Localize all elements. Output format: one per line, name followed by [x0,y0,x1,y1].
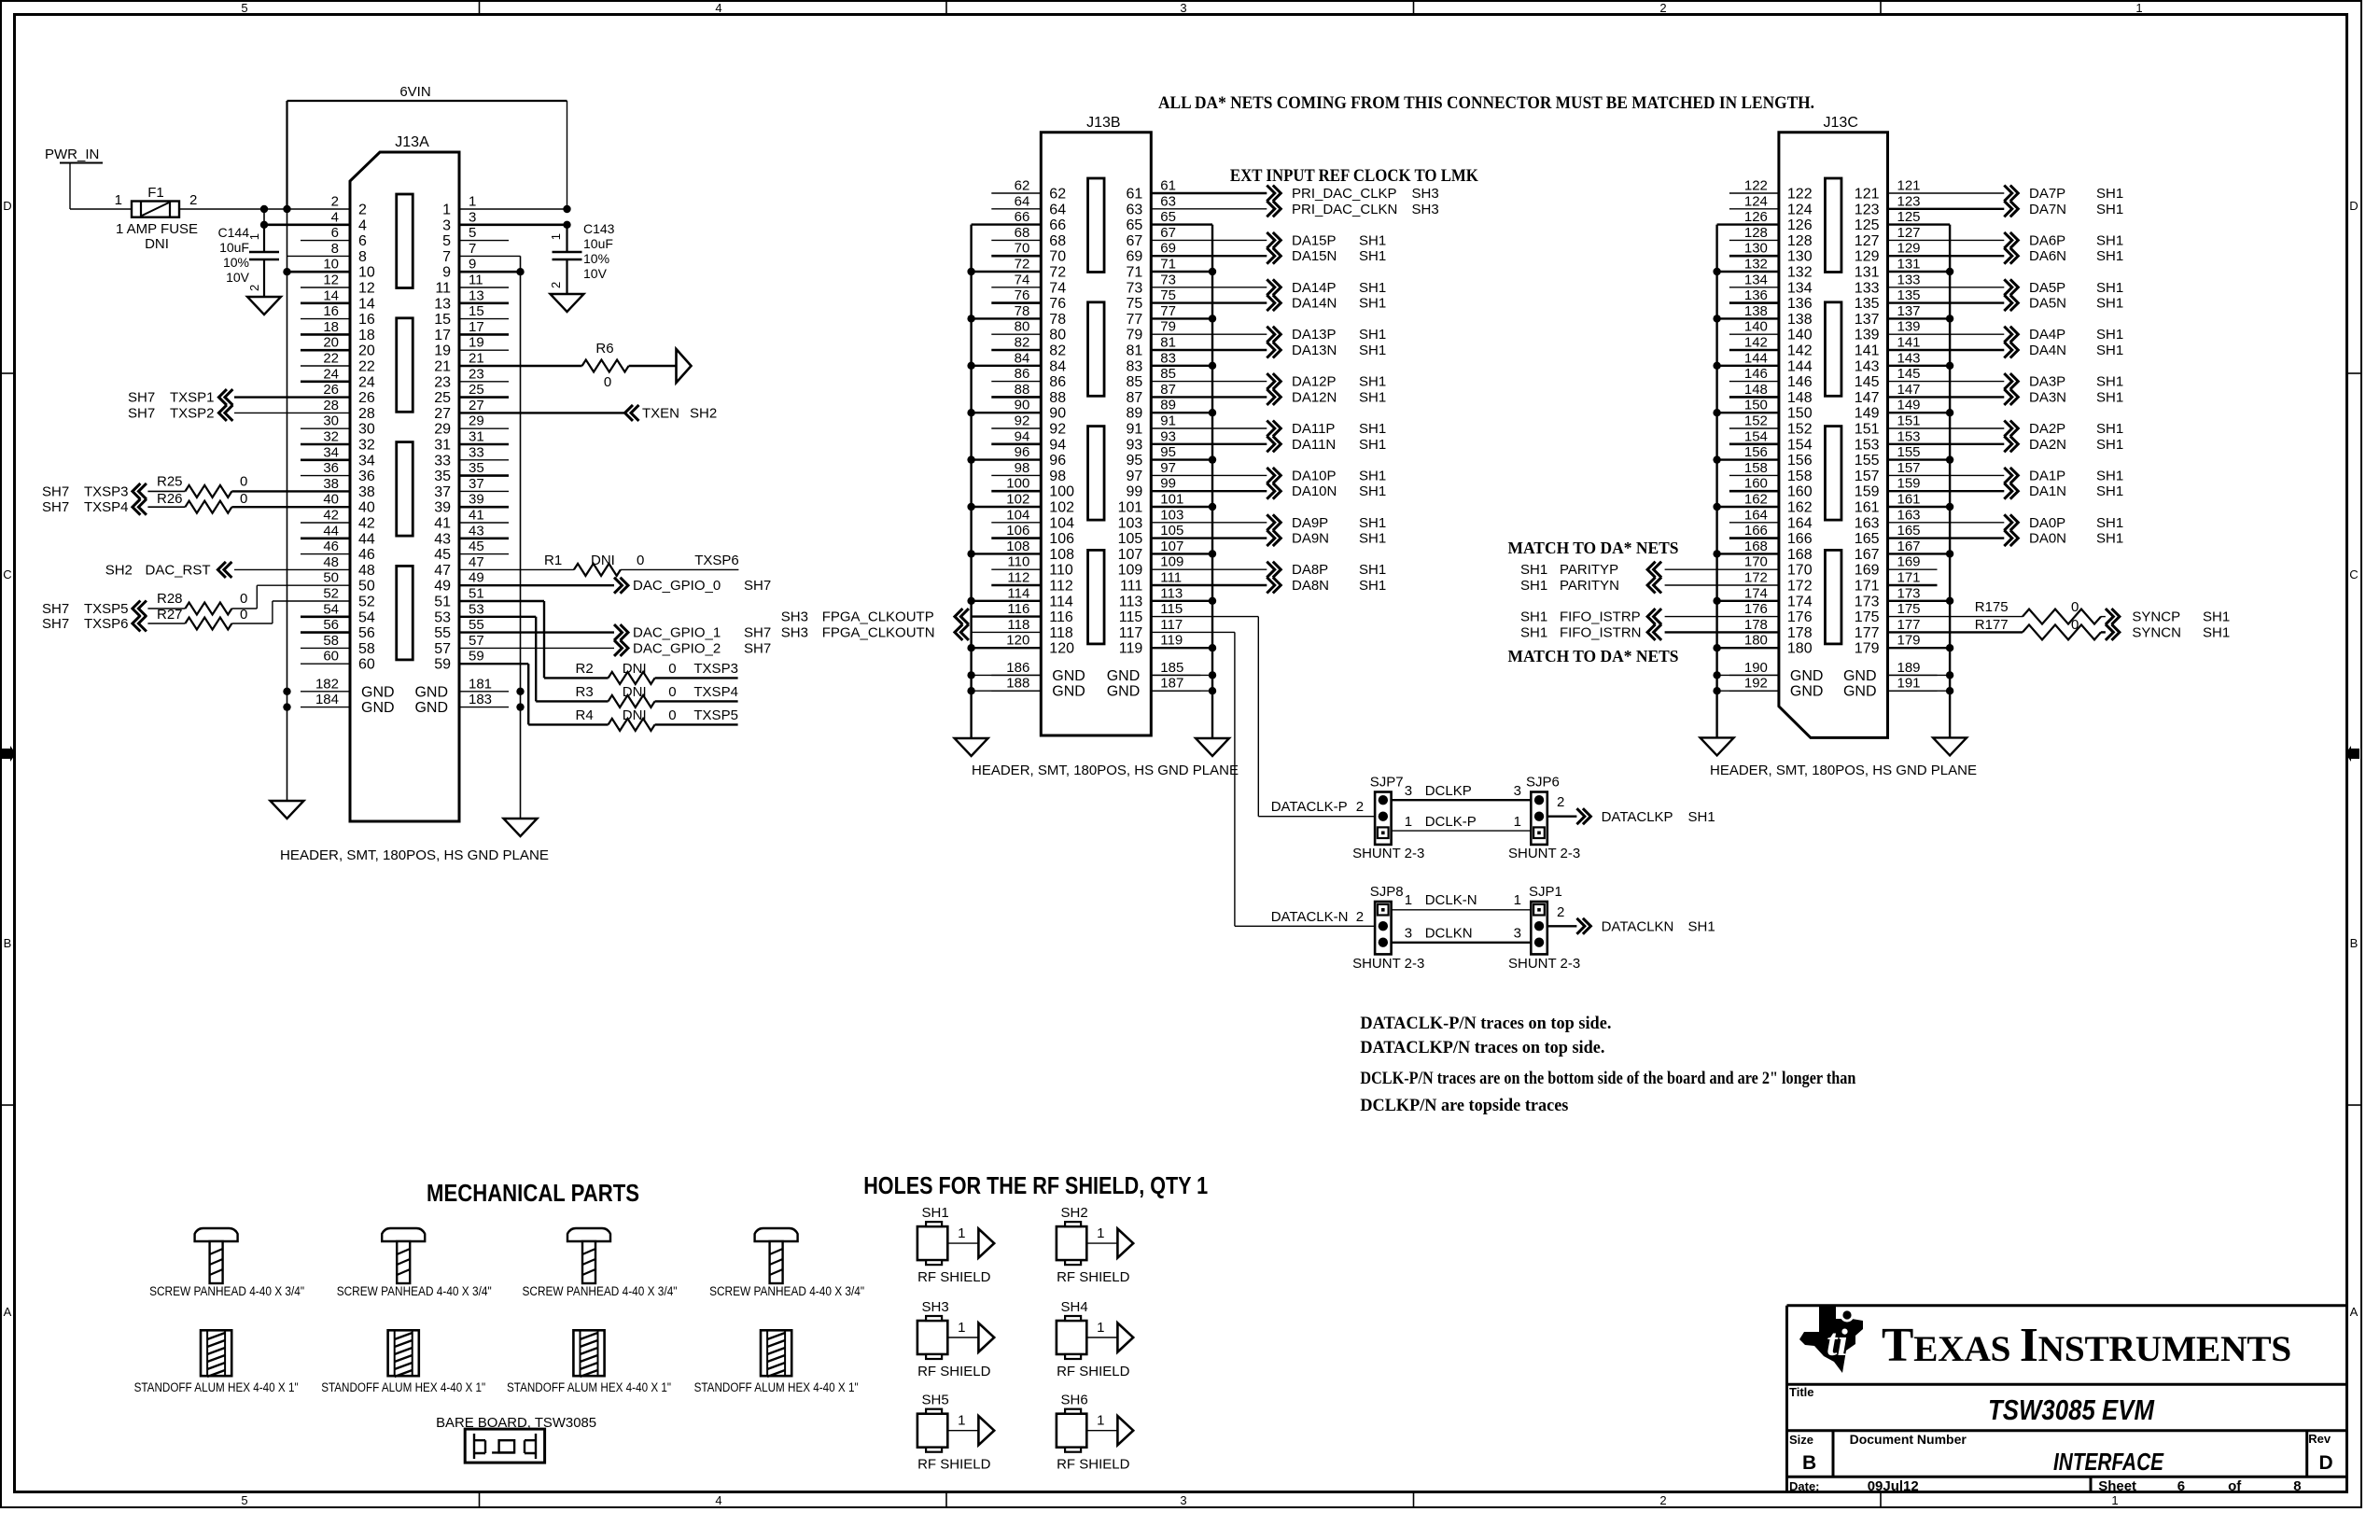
svg-text:TXSP6: TXSP6 [84,616,129,632]
svg-text:84: 84 [1049,358,1066,374]
wire GND pin 96 [972,458,1042,460]
svg-text:DA2P: DA2P [2029,421,2065,437]
svg-text:101: 101 [1160,492,1183,508]
resistor R1 / net TXSP6 [459,568,574,570]
svg-text:TXSP3: TXSP3 [84,483,129,499]
wire left GND bus J13C [1715,225,1717,738]
svg-text:38: 38 [323,476,339,492]
net FPGA_CLKOUTN [955,624,969,640]
svg-text:21: 21 [469,351,484,367]
svg-text:50: 50 [323,570,339,586]
svg-text:SH7: SH7 [744,640,771,656]
svg-text:81: 81 [1127,343,1143,359]
svg-text:GND: GND [1843,668,1877,684]
svg-text:113: 113 [1119,594,1143,609]
svg-text:DA14N: DA14N [1292,296,1337,312]
svg-text:GND: GND [1052,684,1085,700]
svg-text:82: 82 [1049,343,1066,359]
svg-text:39: 39 [434,500,451,516]
svg-text:1: 1 [958,1413,965,1429]
net DA4N [1888,349,2005,351]
net DA10P [1151,474,1267,476]
svg-text:152: 152 [1787,422,1813,438]
svg-text:164: 164 [1744,507,1768,523]
svg-text:DA4P: DA4P [2029,327,2065,343]
svg-text:89: 89 [1160,398,1176,413]
svg-text:115: 115 [1119,609,1143,625]
svg-text:112: 112 [1007,570,1029,586]
svg-text:24: 24 [323,366,339,382]
svg-text:49: 49 [469,570,484,586]
svg-text:17: 17 [469,319,484,335]
resistor R26 [133,499,147,515]
svg-text:61: 61 [1127,187,1143,203]
svg-text:F1: F1 [147,185,164,201]
svg-text:0: 0 [604,374,611,390]
wire GND pin 120 [972,647,1042,649]
svg-text:DAC_GPIO_2: DAC_GPIO_2 [633,640,721,656]
svg-text:GND: GND [1790,684,1824,700]
svg-text:167: 167 [1855,547,1880,563]
node junction C144 top [260,205,268,213]
svg-text:78: 78 [1049,312,1066,328]
svg-text:147: 147 [1855,390,1880,406]
svg-text:1: 1 [115,192,122,208]
svg-text:SH1: SH1 [2096,468,2123,483]
svg-text:10%: 10% [223,255,249,270]
svg-text:103: 103 [1118,515,1143,531]
net DA1N [1888,490,2005,492]
svg-text:148: 148 [1787,390,1813,406]
svg-text:130: 130 [1744,241,1768,257]
screw symbol at 432.2 [382,1228,425,1241]
svg-text:91: 91 [1160,413,1176,429]
svg-text:124: 124 [1744,193,1768,209]
svg-text:170: 170 [1744,554,1768,570]
svg-text:2: 2 [1356,909,1364,925]
svg-text:74: 74 [1049,280,1066,296]
svg-text:TXSP1: TXSP1 [170,390,215,406]
svg-text:31: 31 [434,438,451,454]
svg-text:72: 72 [1015,257,1030,273]
svg-text:60: 60 [358,657,375,673]
node junctions GND 190/192 [1717,674,1779,676]
svg-text:146: 146 [1787,374,1813,390]
resistor R6 [459,365,582,367]
standoff symbol at 231.6 [201,1330,231,1376]
svg-text:C: C [2349,567,2358,581]
screw symbol at 831.6 [755,1228,798,1241]
svg-text:176: 176 [1744,601,1768,617]
standoff symbol at 631 [573,1330,604,1376]
svg-text:129: 129 [1855,249,1880,265]
svg-text:DAC_RST: DAC_RST [146,562,211,578]
svg-text:DAC_GPIO_1: DAC_GPIO_1 [633,625,721,641]
svg-text:R177: R177 [1975,617,2009,633]
svg-text:157: 157 [1855,469,1880,484]
svg-text:92: 92 [1015,413,1030,429]
svg-text:61: 61 [1160,178,1176,194]
J13B GND pins [991,674,1041,676]
svg-text:SH7: SH7 [128,390,155,406]
svg-text:TXSP2: TXSP2 [170,405,215,421]
net DA5N [1888,301,2005,303]
svg-text:SH3: SH3 [1412,186,1439,202]
svg-text:14: 14 [323,287,339,303]
wire right GND bus J13B [1211,225,1213,738]
svg-text:10uF: 10uF [583,236,613,251]
svg-text:J13A: J13A [395,134,429,150]
svg-text:SCREW PANHEAD 4-40 X 3/4": SCREW PANHEAD 4-40 X 3/4" [337,1284,492,1298]
svg-text:58: 58 [358,641,375,657]
svg-text:129: 129 [1897,241,1921,257]
svg-text:5: 5 [442,233,451,249]
node junctions GND 189/191 [1888,674,1951,676]
svg-text:123: 123 [1897,193,1921,209]
svg-text:119: 119 [1119,641,1143,657]
svg-text:DA15N: DA15N [1292,248,1337,264]
svg-text:SH4: SH4 [1061,1299,1088,1315]
svg-text:SH6: SH6 [1061,1393,1088,1408]
svg-text:FIFO_ISTRN: FIFO_ISTRN [1560,624,1642,640]
svg-text:SH1: SH1 [2096,483,2123,499]
net DAC_GPIO_2 [459,647,614,649]
svg-text:SH1: SH1 [1359,343,1386,358]
net DA8N [1151,584,1267,586]
svg-text:139: 139 [1897,319,1921,335]
svg-text:SYNCN: SYNCN [2132,624,2181,640]
svg-text:73: 73 [1127,280,1143,296]
svg-text:59: 59 [469,649,484,665]
svg-text:SH2: SH2 [690,405,717,421]
svg-text:95: 95 [1160,444,1176,460]
svg-text:63: 63 [1127,202,1143,217]
svg-text:PARITYP: PARITYP [1560,562,1618,578]
svg-text:A: A [4,1305,12,1319]
net DAC_GPIO_1 [459,631,614,633]
svg-text:81: 81 [1160,335,1176,351]
svg-text:DATACLK-N: DATACLK-N [1271,909,1349,925]
svg-text:R4: R4 [576,707,594,723]
svg-text:181: 181 [469,676,492,692]
svg-text:6: 6 [331,225,339,241]
svg-text:DCLK-P/N traces are on the bot: DCLK-P/N traces are on the bottom side o… [1360,1069,1855,1088]
svg-text:R27: R27 [157,607,183,623]
svg-text:90: 90 [1015,398,1030,413]
svg-text:5: 5 [241,1493,247,1507]
svg-text:SH7: SH7 [744,625,771,641]
svg-text:28: 28 [323,398,339,413]
svg-text:HEADER, SMT, 180POS, HS GND PL: HEADER, SMT, 180POS, HS GND PLANE [280,847,549,863]
svg-text:46: 46 [358,547,375,563]
net DA15P [1151,239,1267,241]
svg-text:95: 95 [1127,453,1143,469]
svg-text:SH7: SH7 [42,483,69,499]
svg-text:17: 17 [434,328,451,343]
svg-text:152: 152 [1744,413,1768,429]
svg-text:HOLES FOR THE RF SHIELD, QTY 1: HOLES FOR THE RF SHIELD, QTY 1 [863,1171,1208,1199]
svg-text:3: 3 [469,209,476,225]
svg-text:64: 64 [1049,202,1066,217]
svg-text:14: 14 [358,296,375,312]
svg-text:FPGA_CLKOUTN: FPGA_CLKOUTN [822,624,935,640]
svg-text:EXT INPUT REF CLOCK TO LMK: EXT INPUT REF CLOCK TO LMK [1230,166,1478,186]
svg-text:SH1: SH1 [2096,437,2123,453]
wire right GND bus J13C [1949,225,1951,738]
svg-text:SH1: SH1 [1359,374,1386,390]
svg-text:168: 168 [1744,539,1768,554]
svg-text:43: 43 [434,531,451,547]
svg-text:SCREW PANHEAD 4-40 X 3/4": SCREW PANHEAD 4-40 X 3/4" [149,1284,304,1298]
svg-text:57: 57 [469,633,484,649]
svg-text:120: 120 [1006,633,1029,649]
svg-text:102: 102 [1006,492,1029,508]
svg-text:SH7: SH7 [128,405,155,421]
svg-text:128: 128 [1744,225,1768,241]
wire GND pin 107 [1151,553,1212,554]
svg-text:69: 69 [1160,241,1176,257]
svg-text:186: 186 [1006,660,1029,676]
svg-text:66: 66 [1015,209,1030,225]
svg-text:SH5: SH5 [922,1393,949,1408]
svg-text:DA3N: DA3N [2029,389,2066,405]
net PRI_DAC_CLKP [1151,192,1267,194]
svg-text:GND: GND [361,684,395,700]
wire pin7 to bus [459,255,521,257]
resistor R27 / net TXSP6 left [133,616,147,632]
wire 6VIN right drop to pin1 [567,101,568,209]
svg-text:DA8N: DA8N [1292,578,1329,594]
svg-text:DATACLK-P: DATACLK-P [1271,799,1348,815]
svg-text:73: 73 [1160,272,1176,287]
svg-text:SH3: SH3 [781,624,808,640]
svg-text:STANDOFF ALUM HEX 4-40 X 1": STANDOFF ALUM HEX 4-40 X 1" [694,1380,859,1394]
svg-text:148: 148 [1744,382,1768,398]
ground J13C left [1701,737,1734,755]
Texas Instruments logo [1799,1307,1863,1373]
svg-text:113: 113 [1160,585,1183,601]
svg-text:57: 57 [434,641,451,657]
svg-text:71: 71 [1160,257,1176,273]
svg-text:DA10N: DA10N [1292,483,1337,499]
svg-text:35: 35 [469,460,484,476]
svg-text:98: 98 [1049,469,1066,484]
wire 6VIN left drop [286,101,287,209]
zone tick marks bottom [479,1492,481,1508]
svg-text:109: 109 [1160,554,1183,570]
wire GND pin 72 [972,271,1042,273]
ground J13A right [504,819,538,836]
net DA9P [1151,522,1267,524]
svg-text:SH1: SH1 [2096,421,2123,437]
svg-text:DNI: DNI [623,707,647,723]
svg-text:149: 149 [1897,398,1921,413]
svg-text:D: D [2349,199,2358,213]
svg-text:2: 2 [1356,799,1364,815]
wire DATACLK-P from pin115 [1151,616,1258,618]
svg-text:165: 165 [1897,523,1921,539]
svg-text:2: 2 [189,192,197,208]
node junction GND 181 [516,688,524,695]
resistor R25 [133,483,147,499]
svg-text:52: 52 [323,586,339,602]
svg-text:110: 110 [1049,563,1073,579]
svg-text:83: 83 [1160,350,1176,366]
svg-text:26: 26 [358,390,375,406]
wire PWR_IN to fuse [70,208,132,210]
svg-text:C: C [3,567,11,581]
svg-text:139: 139 [1855,328,1880,343]
svg-text:133: 133 [1855,280,1880,296]
net DA1P [1888,474,2005,476]
svg-text:SJP7: SJP7 [1370,775,1404,791]
svg-text:B: B [1802,1452,1816,1474]
svg-text:59: 59 [434,657,451,673]
svg-text:DATACLK-P/N traces on top side: DATACLK-P/N traces on top side. [1360,1014,1611,1033]
svg-text:123: 123 [1855,202,1880,217]
svg-text:131: 131 [1897,257,1921,273]
svg-text:DNI: DNI [623,684,647,700]
svg-text:10V: 10V [226,270,250,285]
wire GND pin 150 [1717,412,1779,413]
svg-text:GND: GND [414,700,448,716]
svg-text:SH1: SH1 [1359,468,1386,483]
svg-text:187: 187 [1160,676,1183,692]
svg-text:DA8P: DA8P [1292,562,1328,578]
svg-text:48: 48 [358,563,375,579]
svg-text:9: 9 [469,257,476,273]
svg-text:1: 1 [2111,1493,2118,1507]
svg-text:D: D [2319,1452,2333,1474]
net 6VIN top wire [287,100,567,102]
svg-text:179: 179 [1897,633,1921,649]
node junction pin2 row [283,205,290,213]
wire GND pin 149 [1888,412,1951,413]
wire DATACLK-N from pin117 [1151,631,1235,633]
svg-text:163: 163 [1855,515,1880,531]
svg-text:47: 47 [434,563,451,579]
svg-text:SHUNT 2-3: SHUNT 2-3 [1508,956,1580,972]
ground J13B left [955,738,988,756]
svg-text:DA12P: DA12P [1292,374,1337,390]
svg-text:1: 1 [1097,1413,1104,1429]
svg-text:SJP1: SJP1 [1529,884,1562,900]
wire GND pin 132 [1717,271,1779,273]
svg-text:1: 1 [549,233,563,240]
svg-text:R175: R175 [1975,599,2009,615]
svg-text:DA5P: DA5P [2029,280,2065,296]
svg-text:111: 111 [1160,570,1182,586]
svg-text:175: 175 [1897,601,1921,617]
svg-text:153: 153 [1897,428,1921,444]
svg-text:1: 1 [442,203,451,218]
svg-text:146: 146 [1744,366,1768,382]
svg-text:161: 161 [1855,500,1880,516]
svg-text:65: 65 [1160,209,1176,225]
svg-text:76: 76 [1015,287,1030,303]
svg-text:44: 44 [358,531,375,547]
net DA8P [1151,568,1267,570]
svg-text:134: 134 [1744,272,1768,287]
svg-text:STANDOFF ALUM HEX 4-40 X 1": STANDOFF ALUM HEX 4-40 X 1" [134,1380,299,1394]
net DAC_GPIO_0 [459,584,614,586]
svg-text:HEADER, SMT, 180POS, HS GND PL: HEADER, SMT, 180POS, HS GND PLANE [1710,763,1977,778]
jumper SJP7 [1375,792,1392,845]
svg-text:155: 155 [1855,453,1880,469]
svg-text:39: 39 [469,492,484,508]
svg-text:92: 92 [1049,422,1066,438]
svg-text:SH1: SH1 [2096,202,2123,217]
svg-text:SH1: SH1 [1520,562,1547,578]
wire GND pin 179 [1888,647,1951,649]
svg-text:151: 151 [1897,413,1921,429]
svg-text:172: 172 [1787,579,1813,595]
svg-text:97: 97 [1127,469,1143,484]
net DCLK-N [1392,909,1532,911]
svg-text:27: 27 [434,406,451,422]
svg-text:8: 8 [2293,1478,2301,1494]
svg-text:97: 97 [1160,460,1176,476]
svg-text:43: 43 [469,523,484,539]
svg-text:145: 145 [1855,374,1880,390]
svg-text:23: 23 [434,374,451,390]
svg-text:138: 138 [1744,303,1768,319]
svg-text:125: 125 [1897,209,1921,225]
svg-text:SH1: SH1 [2203,609,2230,625]
svg-text:DA12N: DA12N [1292,389,1337,405]
svg-text:GND: GND [361,700,395,716]
svg-text:86: 86 [1015,366,1030,382]
svg-text:2: 2 [1557,904,1564,920]
svg-text:0: 0 [240,491,247,507]
svg-text:7: 7 [442,249,451,265]
svg-text:R25: R25 [157,473,183,489]
node junction pin10 bus [283,268,290,275]
svg-text:STANDOFF ALUM HEX 4-40 X 1": STANDOFF ALUM HEX 4-40 X 1" [507,1380,671,1394]
net DATACLKP output [1547,816,1577,818]
svg-text:111: 111 [1120,579,1142,595]
J13A GND pins [301,691,350,693]
svg-text:23: 23 [469,366,484,382]
svg-text:DATACLKP/N traces on top side.: DATACLKP/N traces on top side. [1360,1038,1604,1057]
net DCLK-P [1392,830,1532,832]
svg-text:190: 190 [1744,660,1768,676]
off-page arrow R6 [677,349,692,383]
center arrow left [2,746,16,762]
svg-text:SH1: SH1 [2096,248,2123,264]
svg-text:160: 160 [1744,476,1768,492]
svg-text:4: 4 [331,209,339,225]
svg-text:R28: R28 [157,591,183,607]
svg-text:53: 53 [434,609,451,625]
net TXSP1 [218,389,232,405]
svg-text:B: B [4,936,12,950]
svg-text:77: 77 [1127,312,1143,328]
svg-text:1: 1 [1405,814,1412,830]
svg-text:183: 183 [469,692,492,707]
svg-text:98: 98 [1015,460,1030,476]
svg-text:SH7: SH7 [42,616,69,632]
svg-text:45: 45 [469,539,484,554]
wire GND pin 138 [1717,317,1779,319]
wire GND pin 156 [1717,458,1779,460]
svg-text:15: 15 [434,312,451,328]
svg-text:160: 160 [1787,484,1813,500]
svg-text:19: 19 [469,335,484,351]
svg-text:13: 13 [469,287,484,303]
wire pin2 row to fuse [179,208,350,210]
svg-text:145: 145 [1897,366,1921,382]
